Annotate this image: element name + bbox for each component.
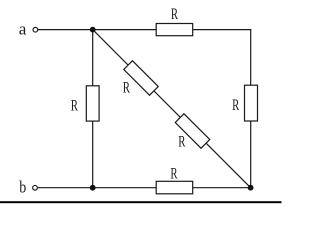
wire left resistor to node C [92,121,94,188]
resistor R (bottom) [156,181,193,194]
svg-text:R: R [71,97,78,114]
wire a to node A [38,29,93,31]
resistor R (top) [156,24,193,36]
wire right resistor to node B [250,121,252,188]
svg-text:a: a [19,20,27,39]
wire node A to top resistor [93,29,157,31]
terminal a [33,27,38,32]
wire top-right corner down to right resistor [250,29,252,85]
node A junction dot [90,27,96,33]
svg-text:R: R [123,80,130,97]
wire node C to bottom resistor [93,187,157,189]
svg-text:R: R [178,133,185,150]
wire node A down to left resistor [92,30,94,86]
svg-text:b: b [19,178,26,197]
resistor R (right) [245,85,258,121]
wire top resistor to top-right corner [193,29,252,31]
wire b to node C [38,187,93,189]
resistor R (diagonal upper) [124,61,159,96]
svg-text:R: R [170,166,177,183]
resistor R (diagonal lower) [175,114,210,149]
svg-text:R: R [171,6,178,23]
resistor R (left) [86,86,99,121]
bottom rule [0,201,282,203]
wire diagonal node A to node B [93,30,251,188]
node B junction dot [248,185,254,191]
wire bottom resistor to node B [193,187,251,189]
svg-text:R: R [232,97,239,114]
node C junction dot [90,185,96,191]
terminal b [33,185,38,190]
